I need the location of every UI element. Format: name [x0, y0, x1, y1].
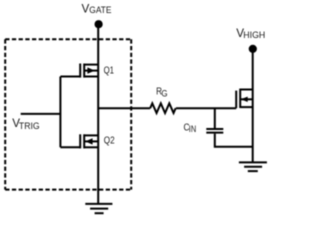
svg-text:Q2: Q2 — [104, 135, 115, 147]
svg-text:IN: IN — [189, 124, 196, 134]
wire: C_IN branch (junction at x=214.8) — [214, 108, 216, 128]
svg-text:GATE: GATE — [89, 5, 111, 15]
driver block boundary (dashed box) — [5, 39, 131, 189]
transistor Q1 (PMOS, top of driver) — [60, 64, 98, 78]
wire: V_HIGH rail (drain/source rail of power MOSFET) — [252, 49, 254, 162]
terminal V_HIGH dot — [249, 45, 257, 53]
svg-text:G: G — [161, 89, 167, 99]
transistor Q2 (NMOS, bottom of driver) — [60, 134, 98, 148]
wire: input node (V_TRIG to gates of Q1/Q2) — [21, 77, 61, 148]
svg-text:TRIG: TRIG — [19, 121, 40, 131]
svg-text:HIGH: HIGH — [243, 30, 265, 40]
wire: driver output node to R_G — [98, 107, 150, 109]
capacitor C_IN — [206, 129, 223, 133]
svg-text:V: V — [82, 2, 90, 16]
terminal V_GATE dot — [95, 20, 103, 28]
wire: V_GATE rail (x=98 from dot down to driver ground) — [97, 24, 99, 204]
resistor R_G — [150, 103, 175, 113]
ground (driver, bottom centre) — [85, 204, 112, 213]
svg-text:Q1: Q1 — [104, 64, 115, 76]
power MOSFET (right) — [236, 89, 253, 109]
wire: C_IN bottom to source/ground rail — [215, 134, 253, 147]
ground (power MOSFET source) — [239, 162, 267, 171]
wire: R_G to power MOSFET gate — [176, 107, 236, 109]
